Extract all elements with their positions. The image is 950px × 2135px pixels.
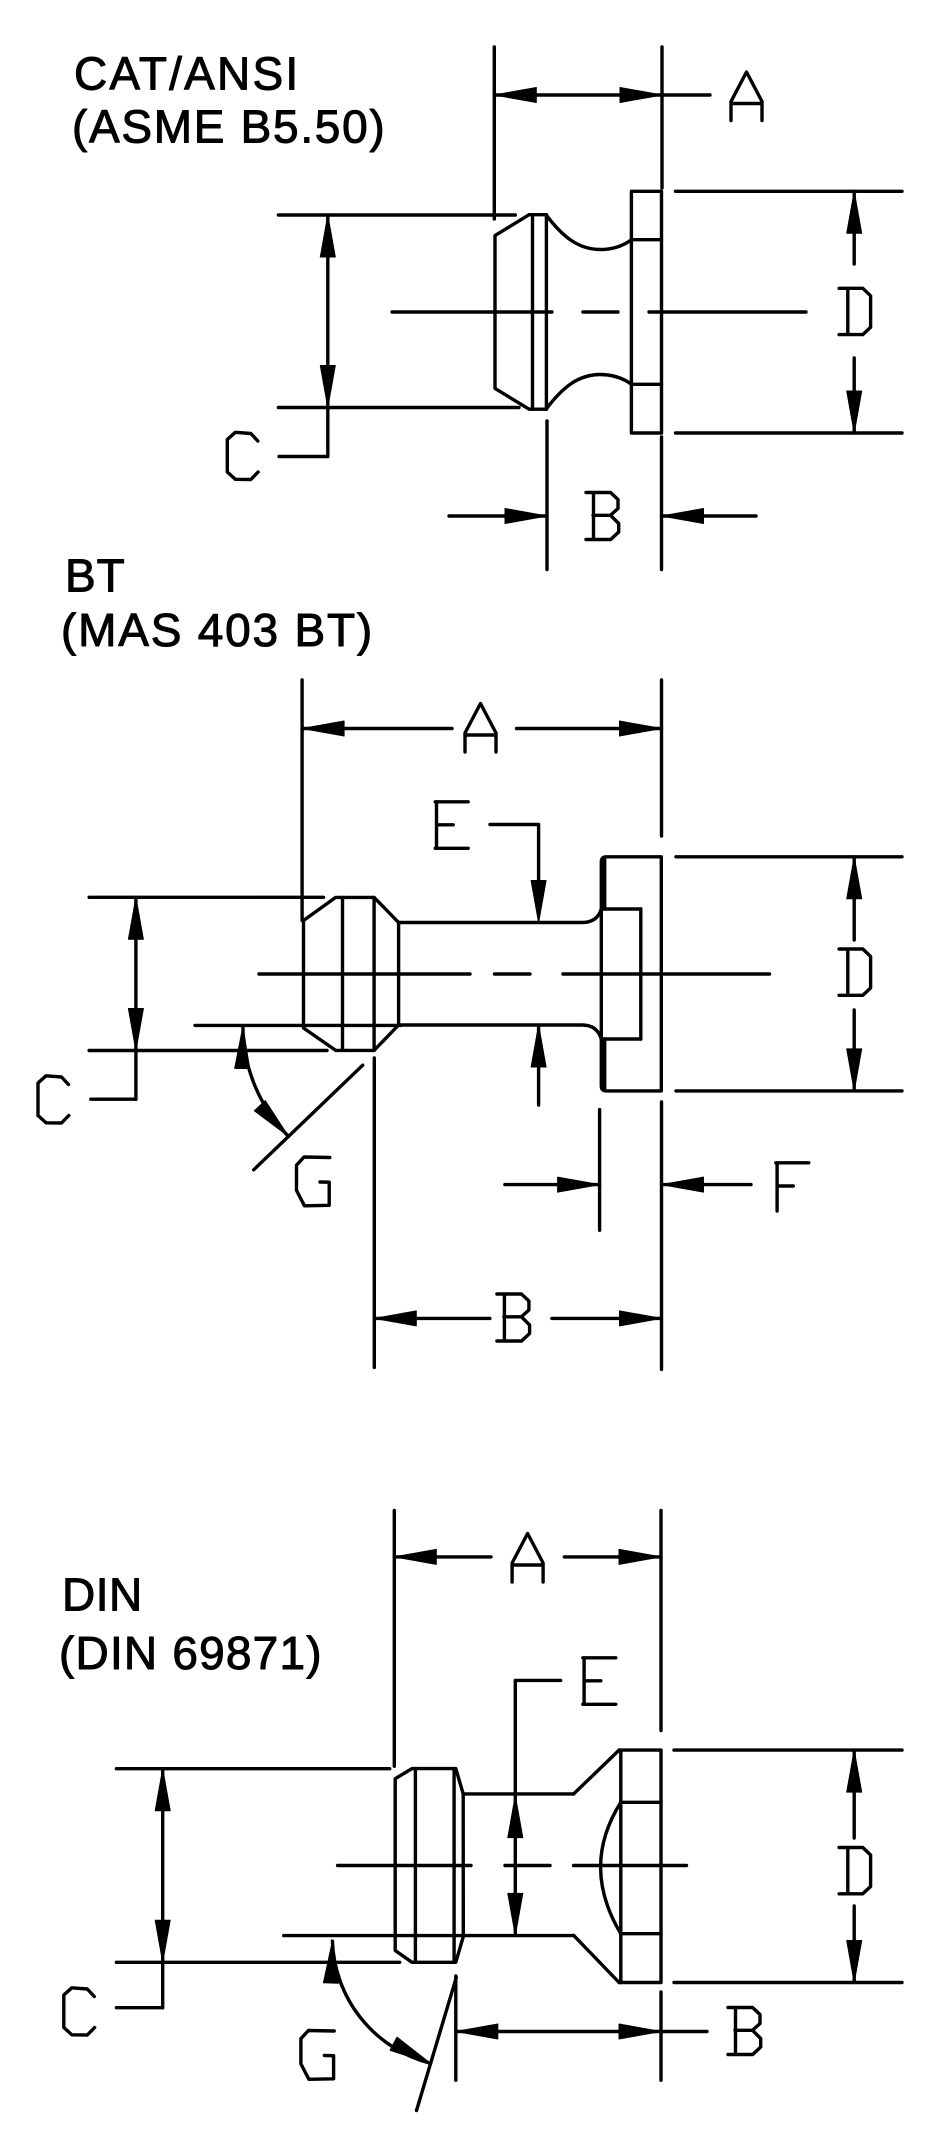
dimension C (DIN) leader elbow xyxy=(116,2006,162,2009)
dimension C (DIN) top arrowhead xyxy=(155,1769,170,1811)
dimension A (BT) right arrowhead xyxy=(620,721,662,736)
shaft top line (DIN) xyxy=(463,1792,574,1795)
dimension B (BT) right arrow line xyxy=(552,1317,662,1320)
dimension C (DIN) dimension line xyxy=(161,1769,164,2008)
dimension B (DIN) right extension line xyxy=(659,1992,662,2080)
svg-text:(DIN 69871): (DIN 69871) xyxy=(59,1627,323,1679)
pull stud head outline (DIN) xyxy=(395,1769,463,1963)
angle G (DIN) arc top arrowhead xyxy=(323,1941,338,1983)
dimension B (CAT) left extension line xyxy=(545,421,548,570)
dimension F (BT) right extension line xyxy=(660,1102,663,1369)
dimension D (DIN) bottom extension line xyxy=(674,1981,902,1984)
dimension A (CAT) left extension line xyxy=(493,47,496,219)
head cylindrical band line 1 (CAT) xyxy=(531,215,534,410)
label B (BT) xyxy=(497,1294,530,1341)
dimension D (CAT) bottom arrow line xyxy=(853,358,856,433)
dimension A (CAT) dimension line xyxy=(494,93,710,96)
dimension A (CAT) right arrowhead xyxy=(620,88,662,103)
dimension B (BT) right arrowhead xyxy=(620,1311,662,1326)
flange boss top line (BT) xyxy=(601,907,641,910)
dimension A (DIN) left arrowhead xyxy=(394,1549,436,1564)
dimension E (DIN) leader elbow xyxy=(515,1680,560,1935)
flange bottom inner line (CAT) xyxy=(631,383,661,386)
dimension B (BT) left extension line xyxy=(373,1058,376,1367)
dimension D (BT) top extension line xyxy=(676,855,902,858)
dimension D (CAT) top arrow line xyxy=(853,191,856,264)
label A (BT) xyxy=(465,704,496,753)
neck bottom profile curve (CAT) xyxy=(546,375,631,409)
dimension A (DIN) right arrowhead xyxy=(619,1549,661,1564)
dimension B (CAT) right extension line xyxy=(660,437,663,570)
head facet line 2 (BT) xyxy=(372,897,375,1050)
flange outline (BT) xyxy=(601,857,661,1091)
pull stud head outline (CAT) xyxy=(495,215,546,410)
dimension B (CAT) left arrowhead xyxy=(505,509,547,524)
dimension C (BT) top arrowhead xyxy=(128,897,143,939)
dimension B (CAT) left arrow line xyxy=(449,514,547,517)
dimension D (BT) bottom arrow line xyxy=(853,1010,856,1091)
dimension F (BT) right arrow line xyxy=(662,1183,752,1186)
neck top profile curve (CAT) xyxy=(546,215,631,249)
dimension A (DIN) left extension line xyxy=(393,1510,396,1766)
dimension D (CAT) bottom arrowhead xyxy=(847,391,862,433)
svg-text:(ASME B5.50): (ASME B5.50) xyxy=(72,101,386,153)
dimension D (BT) top arrowhead xyxy=(847,857,862,899)
label A (CAT) xyxy=(731,72,762,121)
dimension C (BT) top extension line xyxy=(89,896,323,899)
head cylindrical band line 2 (CAT) xyxy=(545,215,548,410)
dimension A (BT) left arrowhead xyxy=(302,721,344,736)
head facet line 1 (DIN) xyxy=(414,1769,417,1963)
dimension B (DIN) right arrowhead xyxy=(619,2024,661,2039)
dimension B (BT) left arrow line xyxy=(374,1317,490,1320)
dimension C (CAT) leader elbow xyxy=(279,455,328,458)
centerline (BT) xyxy=(259,972,770,975)
svg-text:DIN: DIN xyxy=(62,1569,143,1621)
label B (CAT) xyxy=(586,493,619,540)
dimension D (DIN) top arrow line xyxy=(853,1750,856,1838)
dimension A (DIN) dimension line right part xyxy=(564,1555,661,1558)
flange outline (CAT) xyxy=(631,191,661,433)
angle G (BT) arc top arrowhead xyxy=(235,1027,250,1069)
angle G (DIN) slant line xyxy=(417,1978,457,2111)
head facet line 1 (BT) xyxy=(341,897,344,1050)
angle G (BT) arc xyxy=(243,1027,289,1137)
dimension B (CAT) right arrowhead xyxy=(662,509,704,524)
flange boss right line (BT) xyxy=(639,909,642,1039)
dimension F (BT) left extension line xyxy=(598,1110,601,1231)
dimension A (DIN) dimension line left part xyxy=(394,1555,491,1558)
flange top inner line (CAT) xyxy=(631,238,661,241)
dimension A (DIN) right extension line xyxy=(659,1510,662,1730)
pull stud head outline (BT) xyxy=(304,897,399,1050)
dimension A (BT) dimension line left part xyxy=(302,727,452,730)
label D (DIN) xyxy=(839,1848,871,1894)
label F (BT) xyxy=(776,1163,809,1211)
label C (BT) xyxy=(38,1076,69,1123)
svg-text:BT: BT xyxy=(65,550,126,602)
dimension C (BT) bottom extension line xyxy=(89,1049,327,1052)
label B (DIN) xyxy=(728,2008,761,2055)
dimension F (BT) left arrowhead xyxy=(558,1177,600,1192)
shaft bottom line and angle G reference (DIN) xyxy=(284,1934,574,1937)
svg-text:CAT/ANSI: CAT/ANSI xyxy=(74,48,300,100)
ball groove bottom line (DIN) xyxy=(621,1932,661,1935)
cone top slant (DIN) xyxy=(574,1750,619,1794)
ball groove arc (DIN) xyxy=(601,1802,621,1933)
dimension C (CAT) top extension line xyxy=(278,213,515,216)
dimension D (CAT) top arrowhead xyxy=(847,191,862,233)
dimension E (DIN) up arrowhead xyxy=(508,1796,523,1838)
centerline (CAT) xyxy=(392,310,806,313)
dimension D (DIN) top arrowhead xyxy=(847,1750,862,1792)
dimension B (DIN) left extension line xyxy=(454,1976,457,2080)
dimension B (DIN) dimension line xyxy=(456,2030,707,2033)
angle G (DIN) arc bottom arrowhead xyxy=(390,2037,431,2063)
dimension D (DIN) bottom arrowhead xyxy=(847,1941,862,1983)
label D (CAT) xyxy=(839,288,871,334)
flange boss bottom line (BT) xyxy=(601,1037,641,1040)
dimension C (DIN) bottom extension line xyxy=(116,1961,399,1964)
cone bottom slant (DIN) xyxy=(574,1935,619,1982)
flange left chamfer line lower (BT) xyxy=(603,1039,606,1089)
dimension C (CAT) bottom extension line xyxy=(278,406,519,409)
dimension D (DIN) bottom arrow line xyxy=(853,1906,856,1983)
label C (CAT) xyxy=(227,432,258,479)
dimension C (DIN) top extension line xyxy=(116,1767,389,1770)
dimension C (BT) leader elbow xyxy=(91,1097,136,1100)
dimension A (BT) dimension line right part xyxy=(517,727,662,730)
dimension D (BT) top arrow line xyxy=(853,857,856,940)
dimension D (CAT) bottom extension line xyxy=(676,431,903,434)
label A (DIN) xyxy=(512,1534,543,1583)
flange outline (DIN) xyxy=(619,1750,661,1982)
flange left chamfer line upper (BT) xyxy=(603,860,606,910)
angle G (BT) arc bottom arrowhead xyxy=(254,1101,288,1137)
dimension B (DIN) left arrowhead xyxy=(456,2024,498,2039)
dimension B (BT) left arrowhead xyxy=(374,1311,416,1326)
dimension A (BT) left extension line xyxy=(300,680,303,921)
dimension D (BT) bottom extension line xyxy=(676,1089,902,1092)
svg-text:(MAS 403 BT): (MAS 403 BT) xyxy=(61,604,374,656)
shaft top line with fillet (BT) xyxy=(399,909,602,923)
dimension E (BT) bottom arrowhead pointing up xyxy=(531,1025,546,1067)
dimension A (CAT) left arrowhead xyxy=(494,88,536,103)
dimension A (CAT) right extension line xyxy=(660,47,663,188)
dimension C (CAT) top arrowhead xyxy=(320,215,335,257)
label E (BT) xyxy=(435,802,468,849)
label G (DIN) xyxy=(301,2031,334,2080)
label G (BT) xyxy=(297,1157,330,1206)
dimension D (BT) bottom arrowhead xyxy=(847,1049,862,1091)
dimension D (DIN) top extension line xyxy=(674,1748,902,1751)
dimension C (CAT) dimension line xyxy=(326,215,329,457)
dimension F (BT) right arrowhead xyxy=(662,1177,704,1192)
dimension E (BT) leader elbow xyxy=(490,825,539,881)
dimension A (BT) right extension line xyxy=(660,680,663,836)
label D (BT) xyxy=(839,949,871,995)
label C (DIN) xyxy=(64,1988,95,2035)
dimension C (BT) bottom arrowhead xyxy=(128,1009,143,1051)
angle G (BT) reference line xyxy=(195,1024,401,1027)
dimension C (BT) dimension line xyxy=(134,897,137,1099)
dimension C (DIN) bottom arrowhead xyxy=(155,1920,170,1962)
dimension E (BT) top arrowhead pointing down xyxy=(531,881,546,923)
centerline (DIN) xyxy=(338,1864,687,1867)
angle G (DIN) arc xyxy=(332,1941,430,2063)
dimension E (DIN) down arrowhead xyxy=(508,1893,523,1935)
dimension F (BT) left arrow line xyxy=(505,1183,600,1186)
dimension D (CAT) top extension line xyxy=(676,190,903,193)
head facet line 2 (DIN) xyxy=(452,1769,455,1963)
ball groove top line (DIN) xyxy=(621,1801,661,1804)
shaft bottom line with fillet (BT) xyxy=(399,1025,602,1039)
dimension B (CAT) right arrow line xyxy=(662,514,757,517)
label E (DIN) xyxy=(583,1658,616,1705)
flange front rim line (DIN) xyxy=(619,1750,622,1982)
angle G (BT) slant line xyxy=(254,1065,363,1170)
dimension E (BT) bottom arrow line xyxy=(537,1025,540,1105)
dimension C (CAT) bottom arrowhead xyxy=(320,366,335,408)
